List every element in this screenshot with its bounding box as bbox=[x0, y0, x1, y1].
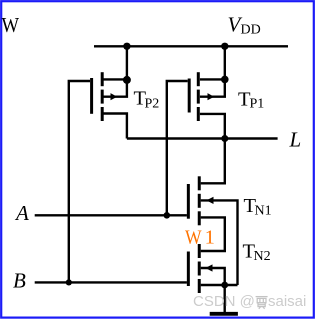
junction dot TP2 bulk-source bbox=[123, 76, 131, 84]
junction dot TP2 source at VDD bbox=[123, 43, 130, 50]
svg-text:A: A bbox=[14, 201, 29, 225]
junction dot TP1 bulk-source bbox=[221, 76, 229, 84]
wire: A input riser to TP1 gate bbox=[167, 81, 188, 215]
wire: node W1 (TN1 source to TN2 drain) bbox=[201, 217, 225, 251]
wire: output L rail bbox=[127, 137, 278, 139]
svg-text:B: B bbox=[13, 269, 26, 293]
wire: B input riser to TP2 gate bbox=[69, 81, 90, 282]
transistor TN1 (NMOS) bbox=[188, 176, 237, 285]
svg-text:P2: P2 bbox=[145, 97, 160, 112]
ground bbox=[210, 285, 238, 314]
VDD power rail bbox=[94, 45, 288, 47]
svg-text:1: 1 bbox=[205, 227, 215, 249]
wire: output down to TN1 drain bbox=[201, 139, 225, 184]
input A wire bbox=[35, 214, 187, 216]
junction dot output node bbox=[221, 135, 228, 142]
label TN2 bbox=[243, 240, 271, 264]
watermark bbox=[193, 293, 306, 310]
svg-text:W: W bbox=[2, 13, 20, 37]
svg-text:DD: DD bbox=[241, 23, 261, 38]
junction dot B to TP2 riser bbox=[66, 279, 72, 285]
svg-text:N2: N2 bbox=[254, 249, 271, 264]
transistor TN2 (NMOS) bbox=[188, 244, 237, 293]
VDD label bbox=[228, 13, 261, 38]
transistor TP2 (PMOS) bbox=[92, 46, 127, 138]
label TP2 bbox=[134, 88, 160, 112]
svg-text:L: L bbox=[289, 127, 302, 151]
svg-text:CSDN @: CSDN @ bbox=[193, 293, 255, 310]
svg-text:saisai: saisai bbox=[268, 293, 306, 310]
svg-text:N1: N1 bbox=[255, 204, 272, 219]
label TP1 bbox=[238, 89, 264, 112]
transistor TP1 (PMOS) bbox=[189, 46, 225, 138]
junction dot A to TP1 riser bbox=[164, 212, 171, 219]
label TN1 bbox=[244, 195, 272, 219]
input B wire bbox=[35, 281, 187, 283]
junction dot TP1 source at VDD bbox=[221, 43, 228, 50]
junction dot TN2 source/bulk/ground bbox=[221, 282, 228, 289]
svg-text:P1: P1 bbox=[250, 97, 265, 112]
